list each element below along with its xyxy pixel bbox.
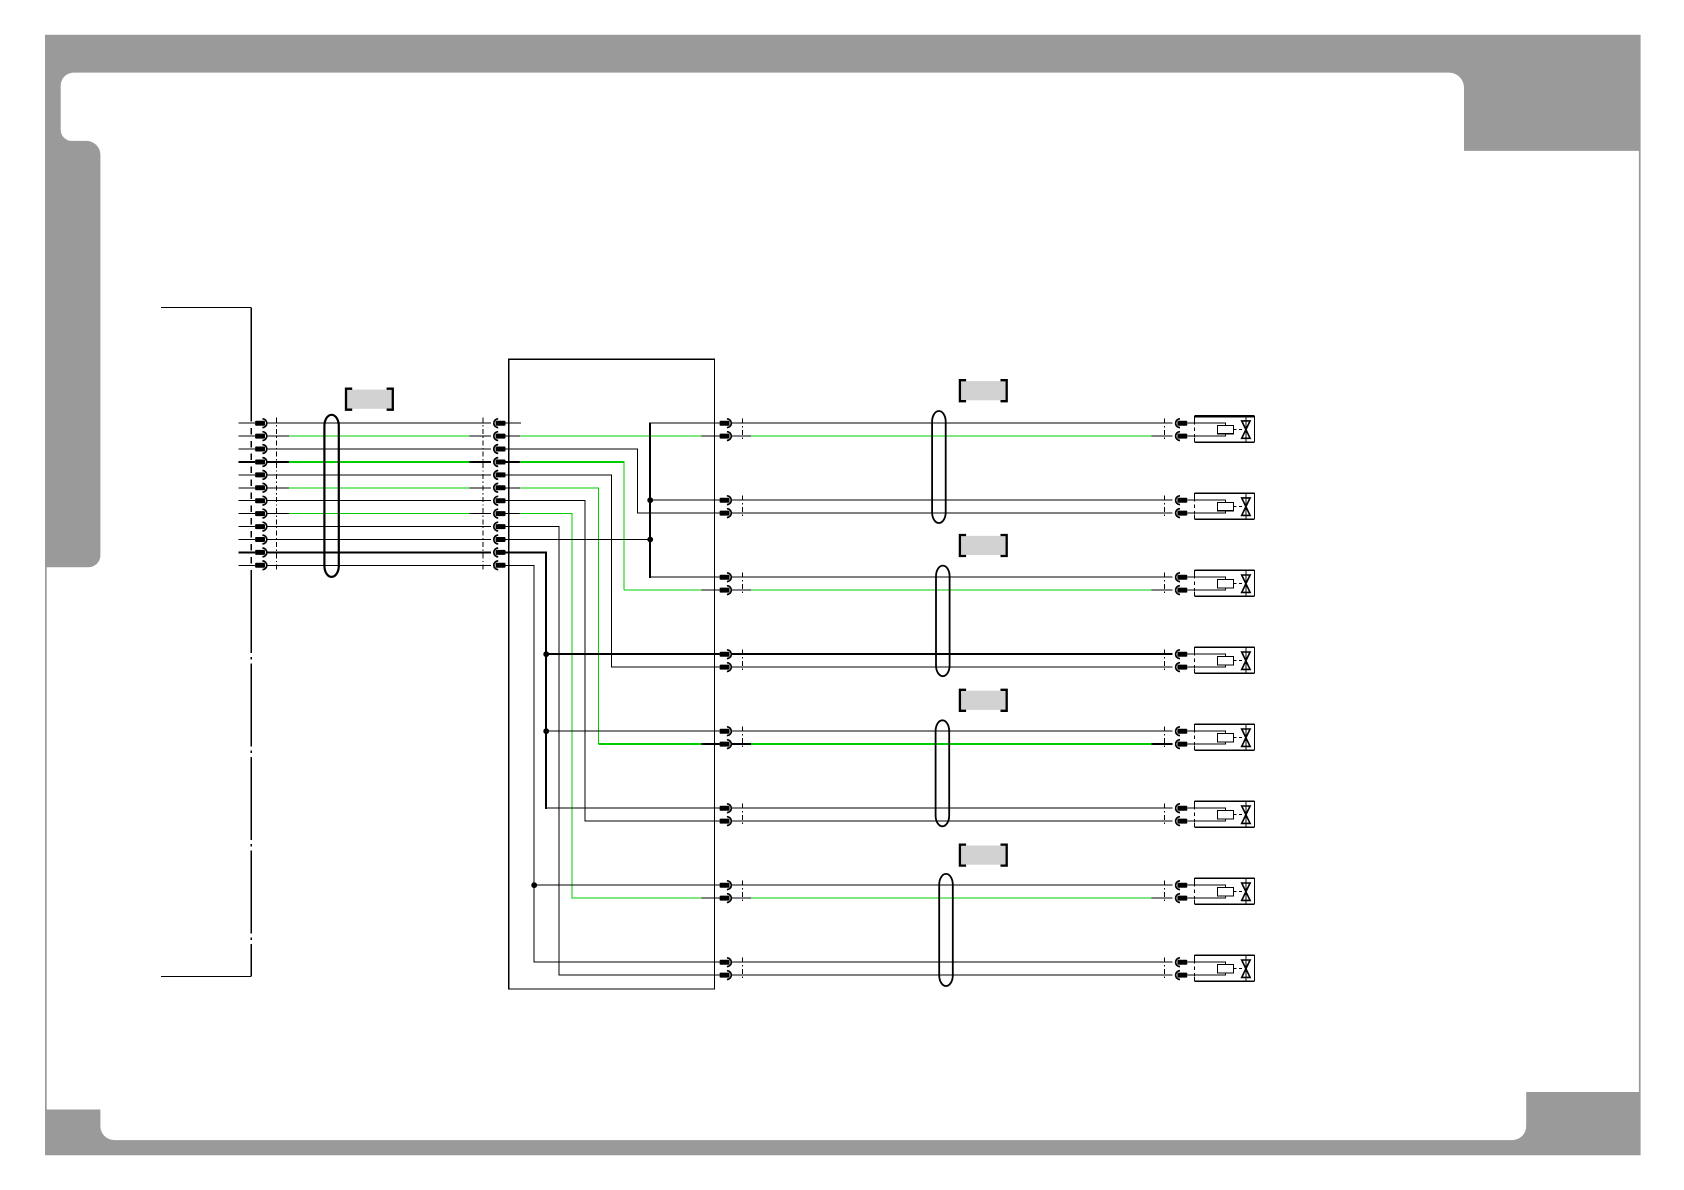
harness boundary dash-dot at output pair 2: [741, 496, 743, 518]
wire row 11 feed (thick) to common bus B: [506, 551, 547, 553]
valve V6 actuation dashed link: [1234, 814, 1243, 816]
connector socket P10b (female): [496, 537, 506, 542]
solenoid valve V4: [1165, 647, 1255, 673]
wire run to valve 3 upper: [732, 576, 1172, 578]
valve V6 coil (solenoid): [1217, 811, 1233, 819]
connector socket P12b (female): [496, 563, 506, 568]
harness boundary dash-dot at output pair 3: [741, 573, 743, 595]
wire row 6: cable run to middle connector: [268, 487, 289, 489]
valve V3 lead lower: [1187, 589, 1194, 591]
harness boundary dash-dot at output pair 6: [741, 804, 743, 826]
output connector pin O1A (male): [720, 421, 730, 426]
valve V3 stem line: [1245, 570, 1247, 596]
valve V7 internal terminal upper: [1194, 885, 1225, 887]
connector pin P2a (male): [255, 434, 265, 439]
valve V1 lead upper: [1187, 422, 1194, 424]
wire row 5: cable run to middle connector: [268, 474, 491, 476]
wire run to valve 1 lower: [732, 435, 751, 437]
harness boundary dash-dot at output pair 5: [741, 727, 743, 749]
valve V5 body outline: [1194, 723, 1254, 725]
wire row 3 net: to output 2B: [506, 449, 720, 513]
valve V6 internal terminal upper: [1194, 808, 1225, 810]
valve V1 stem line: [1245, 416, 1247, 442]
wire row 1: cable run to middle connector: [268, 422, 491, 424]
cable bundle tie (left harness): [324, 415, 338, 577]
connector socket P11b (female): [496, 550, 506, 555]
valve V1 internal terminal lower: [1194, 434, 1225, 436]
wire row 7 net: to output 6B: [506, 501, 720, 821]
solenoid valve V5: [1165, 724, 1255, 750]
wire row 12: ECU pin stub: [239, 564, 256, 566]
wire row 1 stub inside junction box: [506, 422, 522, 424]
connector socket P6b (female): [496, 485, 506, 490]
valve V6 lead lower: [1187, 820, 1194, 822]
harness boundary dash-dot at valve 7: [1164, 881, 1166, 903]
wire row 9: cable run to middle connector: [268, 526, 491, 528]
connector pin P1a (male): [255, 421, 265, 426]
valve V2 stem line: [1245, 493, 1247, 519]
valve V4 coil (solenoid): [1217, 657, 1233, 665]
valve V5 lead upper: [1187, 730, 1194, 732]
harness boundary dash-dot at valve 8: [1164, 958, 1166, 980]
wire row 2 (green) straight through to valve pair 1 lower: [506, 435, 521, 437]
output connector pin O2B (male): [720, 511, 730, 516]
valve V6 stem line: [1245, 801, 1247, 827]
valve V3 body outline: [1194, 569, 1254, 571]
output connector pin O4A (male): [720, 652, 730, 657]
wire row 12 feed to common bus C: [506, 564, 535, 566]
harness boundary dash-dot at valve 6: [1164, 804, 1166, 826]
valve V5 stem line: [1245, 724, 1247, 750]
valve V3 internal terminal upper: [1194, 577, 1225, 579]
wire run to valve 4 upper: [732, 653, 1172, 655]
common bus A (thick vertical): outputs 1A,2A,3A: [649, 422, 651, 578]
junction dot bus A / output 2A: [647, 497, 653, 503]
harness boundary dash-dot at valve 3: [1164, 573, 1166, 595]
wire row 5: ECU pin stub: [239, 474, 256, 476]
wire run to valve 7 lower: [732, 897, 751, 899]
valve V2 connector socket upper: [1177, 498, 1187, 503]
output connector pin O6A (male): [720, 806, 730, 811]
valve V7 stem line: [1245, 878, 1247, 904]
common bus C (vertical): outputs 7A,8A: [533, 565, 535, 963]
valve V8 actuation dashed link: [1234, 968, 1243, 970]
connector socket P1b (female): [496, 421, 506, 426]
harness boundary dash-dot at output pair 4: [741, 650, 743, 672]
output connector pin O3B (male): [720, 588, 730, 593]
valve V4 lead lower: [1187, 666, 1194, 668]
wire row 9: ECU pin stub: [239, 526, 256, 528]
valve V3 internal terminal lower: [1194, 588, 1225, 590]
wire row 4: cable run to middle connector: [268, 461, 289, 463]
valve V5 internal terminal upper: [1194, 731, 1225, 733]
valve V7 connector socket upper: [1177, 883, 1187, 888]
output connector pin O6B (male): [720, 819, 730, 824]
wire row 7: ECU pin stub: [239, 500, 256, 502]
connector socket P9b (female): [496, 524, 506, 529]
valve V8 internal terminal upper: [1194, 962, 1225, 964]
valve V8 lead lower: [1187, 974, 1194, 976]
wire run to valve 6 lower: [732, 820, 1172, 822]
connector socket P8b (female): [496, 511, 506, 516]
connector pin P3a (male): [255, 447, 265, 452]
valve V6 connector socket upper: [1177, 806, 1187, 811]
wire row 4 net (thick green): to output 3B: [506, 461, 521, 463]
wire run to valve 1 upper: [732, 422, 1172, 424]
valve V2 lead upper: [1187, 499, 1194, 501]
valve V8 connector socket lower: [1177, 973, 1187, 978]
wire row 1: ECU pin stub: [239, 422, 256, 424]
valve V6 valve bowtie symbol: [1242, 806, 1250, 823]
wire row 7: cable run to middle connector: [268, 500, 491, 502]
wire run to valve 2 upper: [732, 499, 1172, 501]
output connector pin O8B (male): [720, 973, 730, 978]
cable bundle tie 3 (right harness): [936, 720, 950, 826]
wire row 3: ECU pin stub: [239, 448, 256, 450]
valve V7 coil (solenoid): [1217, 888, 1233, 896]
ECU / control unit box (partial outline): [161, 308, 251, 977]
wire row 8: cable run to middle connector: [268, 513, 289, 515]
valve V7 lead upper: [1187, 884, 1194, 886]
harness boundary dash-dot at valve 5: [1164, 727, 1166, 749]
valve V3 actuation dashed link: [1234, 583, 1243, 585]
valve V6 body outline: [1194, 800, 1254, 802]
harness boundary dash-dot at output pair 8: [741, 958, 743, 980]
valve V6 connector socket lower: [1177, 819, 1187, 824]
valve V2 internal terminal lower: [1194, 511, 1225, 513]
valve V7 internal terminal lower: [1194, 896, 1225, 898]
harness boundary dash-dot at valve 4: [1164, 650, 1166, 672]
harness boundary dash-dot at valve 1: [1164, 419, 1166, 441]
valve V4 stem line: [1245, 647, 1247, 673]
valve V8 coil (solenoid): [1217, 965, 1233, 973]
harness label L0: [346, 389, 393, 410]
valve V4 internal terminal lower: [1194, 665, 1225, 667]
wire row 3: cable run to middle connector: [268, 448, 491, 450]
valve V1 internal terminal upper: [1194, 423, 1225, 425]
valve V2 lead lower: [1187, 512, 1194, 514]
wire run to valve 3 lower: [732, 589, 751, 591]
valve V3 lead upper: [1187, 576, 1194, 578]
valve V4 body outline: [1194, 646, 1254, 648]
connector pin P6a (male): [255, 485, 265, 490]
wire row 10 feed to common bus A: [506, 539, 651, 541]
output connector pin O5A (male): [720, 729, 730, 734]
solenoid valve V2: [1165, 493, 1255, 519]
wire row 6 net (green): to output 5B (thick run): [506, 487, 521, 489]
wire row 10: cable run to middle connector: [268, 539, 491, 541]
valve V5 connector socket lower: [1177, 742, 1187, 747]
wire run to valve 4 lower: [732, 666, 1172, 668]
valve V8 connector socket upper: [1177, 960, 1187, 965]
wire run to valve 2 lower: [732, 512, 1172, 514]
valve V2 connector socket lower: [1177, 511, 1187, 516]
valve V8 valve bowtie symbol: [1242, 960, 1250, 977]
valve V5 connector socket upper: [1177, 729, 1187, 734]
harness boundary dash-dot at valve 2: [1164, 496, 1166, 518]
valve V4 valve bowtie symbol: [1242, 652, 1250, 669]
wire row 11: cable run to middle connector: [268, 551, 491, 553]
valve V3 valve bowtie symbol: [1242, 575, 1250, 592]
wire row 9 net: to output 8B: [506, 527, 720, 976]
junction box (middle): [509, 359, 715, 989]
cable bundle tie 2 (right harness): [936, 566, 950, 677]
common bus B (thick vertical): outputs 4A,5A,6A: [545, 552, 547, 809]
wire row 10: ECU pin stub: [239, 539, 256, 541]
output connector pin O5B (male): [720, 742, 730, 747]
valve V4 connector socket lower: [1177, 665, 1187, 670]
valve V5 internal terminal lower: [1194, 742, 1225, 744]
solenoid valve V3: [1165, 570, 1255, 596]
harness boundary dash-dot line (left of connector row): [275, 418, 277, 571]
output connector pin O1B (male): [720, 434, 730, 439]
connector socket P5b (female): [496, 472, 506, 477]
valve V7 valve bowtie symbol: [1242, 883, 1250, 900]
connector pin P10a (male): [255, 537, 265, 542]
valve V5 lead lower: [1187, 743, 1194, 745]
valve V7 body outline: [1194, 877, 1254, 879]
wire row 4: ECU pin stub: [239, 461, 256, 463]
cable bundle tie 4 (right harness): [939, 874, 953, 986]
connector pin P5a (male): [255, 472, 265, 477]
wire row 2: ECU pin stub: [239, 435, 256, 437]
harness label L2: [960, 535, 1007, 556]
connector socket P3b (female): [496, 447, 506, 452]
connector pin P8a (male): [255, 511, 265, 516]
junction dot bus A / row 10: [647, 537, 653, 543]
solenoid valve V6: [1165, 801, 1255, 827]
harness boundary dash-dot at output pair 1: [741, 419, 743, 441]
connector socket P2b (female): [496, 434, 506, 439]
wire run to valve 5 lower: [732, 743, 751, 745]
valve V7 connector socket lower: [1177, 896, 1187, 901]
valve V4 internal terminal upper: [1194, 654, 1225, 656]
valve V1 actuation dashed link: [1234, 429, 1243, 431]
valve V3 connector socket lower: [1177, 588, 1187, 593]
valve V4 connector socket upper: [1177, 652, 1187, 657]
connector pin P4a (male): [255, 460, 265, 465]
wire run to valve 6 upper: [732, 807, 1172, 809]
harness boundary dash-dot at output pair 7: [741, 881, 743, 903]
wire run to valve 7 upper: [732, 884, 1172, 886]
output connector pin O2A (male): [720, 498, 730, 503]
valve V7 actuation dashed link: [1234, 891, 1243, 893]
valve V8 internal terminal lower: [1194, 973, 1225, 975]
wire row 8: ECU pin stub: [239, 513, 256, 515]
harness boundary dash-dot line (right of cable, before middle connector): [482, 418, 484, 571]
wire row 12: cable run to middle connector: [268, 564, 491, 566]
wire row 5 net: to output 4B: [506, 475, 720, 667]
valve V2 internal terminal upper: [1194, 500, 1225, 502]
junction dot bus B / output 5A: [543, 728, 549, 734]
output connector pin O7B (male): [720, 896, 730, 901]
valve V1 lead lower: [1187, 435, 1194, 437]
harness label L1: [960, 380, 1007, 401]
connector socket P4b (female): [496, 460, 506, 465]
harness label L4: [960, 845, 1007, 866]
wire row 2: cable run to middle connector: [268, 435, 289, 437]
harness label L3: [960, 690, 1007, 711]
valve V3 coil (solenoid): [1217, 580, 1233, 588]
valve V1 connector socket upper: [1177, 421, 1187, 426]
valve V3 connector socket upper: [1177, 575, 1187, 580]
connector pin P9a (male): [255, 524, 265, 529]
wire row 11: ECU pin stub: [239, 551, 256, 553]
solenoid valve V8: [1165, 955, 1255, 981]
wire run to valve 8 upper: [732, 961, 1172, 963]
connector pin P7a (male): [255, 498, 265, 503]
valve V6 internal terminal lower: [1194, 819, 1225, 821]
solenoid valve V1: [1165, 416, 1255, 442]
connector pin P12a (male): [255, 563, 265, 568]
wire run to valve 8 lower: [732, 974, 1172, 976]
connector pin P11a (male): [255, 550, 265, 555]
wire run to valve 5 upper: [732, 730, 1172, 732]
output connector pin O8A (male): [720, 960, 730, 965]
junction dot bus C / output 7A: [531, 882, 537, 888]
valve V8 body outline: [1194, 954, 1254, 956]
valve V8 lead upper: [1187, 961, 1194, 963]
wire row 6: ECU pin stub: [239, 487, 256, 489]
valve V4 lead upper: [1187, 653, 1194, 655]
solenoid valve V7: [1165, 878, 1255, 904]
output connector pin O7A (male): [720, 883, 730, 888]
junction dot bus B / output 4A: [543, 651, 549, 657]
valve V1 coil (solenoid): [1217, 425, 1233, 433]
valve V5 valve bowtie symbol: [1242, 729, 1250, 746]
valve V5 actuation dashed link: [1234, 737, 1243, 739]
valve V2 coil (solenoid): [1217, 502, 1233, 510]
valve V7 lead lower: [1187, 897, 1194, 899]
valve V4 actuation dashed link: [1234, 660, 1243, 662]
valve V2 actuation dashed link: [1234, 506, 1243, 508]
valve V1 connector socket lower: [1177, 434, 1187, 439]
valve V2 body outline: [1194, 492, 1254, 494]
valve V1 body outline: [1194, 415, 1254, 417]
output connector pin O3A (male): [720, 575, 730, 580]
connector socket P7b (female): [496, 498, 506, 503]
valve V2 valve bowtie symbol: [1242, 498, 1250, 516]
wire row 8 net (green): to output 7B: [506, 513, 521, 515]
cable bundle tie 1 (right harness): [932, 411, 946, 523]
valve V1 valve bowtie symbol: [1242, 421, 1250, 438]
valve V6 lead upper: [1187, 807, 1194, 809]
valve V8 stem line: [1245, 955, 1247, 981]
valve V5 coil (solenoid): [1217, 734, 1233, 742]
output connector pin O4B (male): [720, 665, 730, 670]
